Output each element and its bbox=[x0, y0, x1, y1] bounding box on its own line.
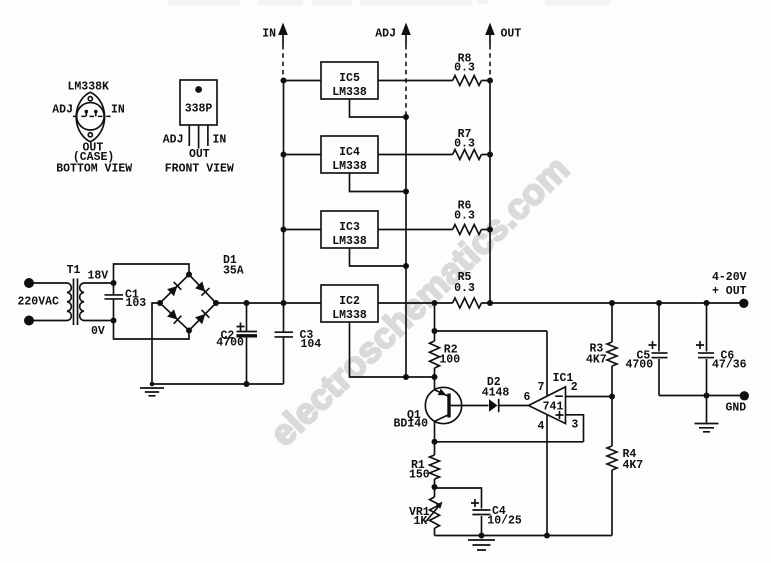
svg-text:T1: T1 bbox=[67, 264, 81, 277]
svg-text:ADJ: ADJ bbox=[375, 28, 396, 41]
svg-text:ADJ: ADJ bbox=[52, 104, 73, 117]
svg-text:47/36: 47/36 bbox=[712, 359, 747, 372]
svg-text:FRONT VIEW: FRONT VIEW bbox=[165, 163, 234, 176]
svg-text:35A: 35A bbox=[223, 265, 244, 278]
svg-text:LM338: LM338 bbox=[332, 86, 367, 99]
svg-text:3: 3 bbox=[571, 419, 578, 432]
svg-text:338P: 338P bbox=[185, 103, 213, 116]
svg-text:LM338: LM338 bbox=[332, 309, 367, 322]
svg-text:18V: 18V bbox=[88, 270, 109, 283]
svg-text:0.3: 0.3 bbox=[454, 138, 475, 151]
svg-text:LM338: LM338 bbox=[332, 160, 367, 173]
svg-text:BOTTOM VIEW: BOTTOM VIEW bbox=[56, 163, 132, 176]
svg-text:LM338: LM338 bbox=[332, 235, 367, 248]
svg-text:ADJ: ADJ bbox=[163, 134, 184, 147]
svg-text:6: 6 bbox=[524, 391, 531, 404]
svg-text:IC3: IC3 bbox=[339, 221, 360, 234]
svg-text:IC5: IC5 bbox=[339, 72, 360, 85]
svg-text:103: 103 bbox=[126, 297, 147, 310]
svg-text:+ OUT: + OUT bbox=[712, 285, 747, 298]
svg-text:4148: 4148 bbox=[482, 387, 510, 400]
svg-text:OUT: OUT bbox=[501, 28, 522, 41]
svg-text:BD140: BD140 bbox=[394, 418, 429, 431]
svg-text:IC2: IC2 bbox=[339, 295, 360, 308]
svg-text:7: 7 bbox=[538, 381, 545, 394]
svg-text:150: 150 bbox=[409, 469, 430, 482]
svg-text:GND: GND bbox=[726, 402, 747, 415]
svg-text:4: 4 bbox=[538, 420, 545, 433]
svg-text:100: 100 bbox=[439, 354, 460, 367]
svg-text:2: 2 bbox=[571, 381, 578, 394]
svg-text:4700: 4700 bbox=[626, 359, 654, 372]
svg-text:0V: 0V bbox=[91, 325, 105, 338]
svg-text:LM338K: LM338K bbox=[67, 81, 109, 94]
svg-text:1K: 1K bbox=[414, 515, 428, 528]
svg-text:OUT: OUT bbox=[189, 148, 210, 161]
svg-text:IN: IN bbox=[213, 134, 227, 147]
svg-text:10/25: 10/25 bbox=[487, 515, 522, 528]
svg-text:104: 104 bbox=[301, 338, 322, 351]
svg-text:0.3: 0.3 bbox=[454, 62, 475, 75]
svg-text:4K7: 4K7 bbox=[586, 354, 607, 367]
svg-text:0.3: 0.3 bbox=[454, 210, 475, 223]
svg-text:IN: IN bbox=[262, 28, 276, 41]
svg-text:0.3: 0.3 bbox=[454, 282, 475, 295]
svg-text:4-20V: 4-20V bbox=[712, 271, 747, 284]
svg-text:220VAC: 220VAC bbox=[18, 296, 60, 309]
svg-text:4K7: 4K7 bbox=[623, 459, 644, 472]
svg-text:4700: 4700 bbox=[216, 337, 244, 350]
svg-text:IC4: IC4 bbox=[339, 146, 360, 159]
svg-text:IN: IN bbox=[111, 104, 125, 117]
